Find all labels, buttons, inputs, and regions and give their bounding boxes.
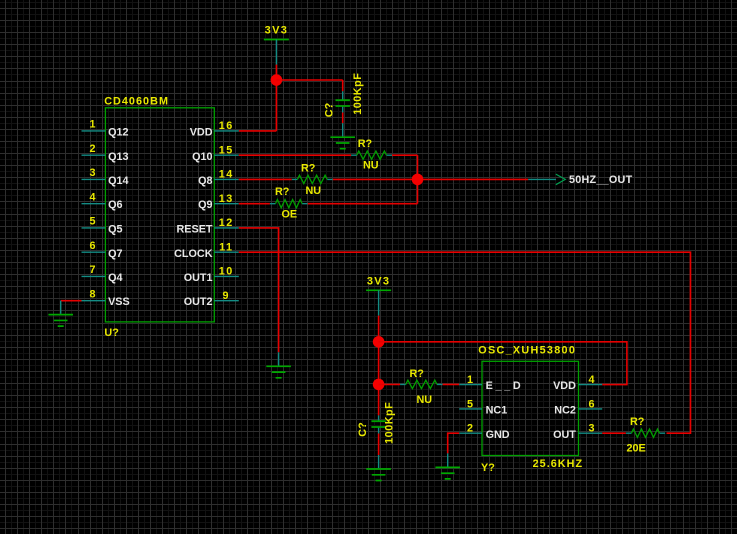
- junction dot2 bottom rail: [373, 379, 385, 391]
- resistor R5 (R? NU): [400, 380, 443, 388]
- pin 9 of U1 (OUT2): [184, 290, 239, 308]
- wire capacitor C2 to ground: [378, 434, 380, 456]
- wire resistor R5 to OSC pin 1: [443, 383, 460, 385]
- svg-text:C?: C?: [357, 422, 369, 436]
- svg-text:R?: R?: [301, 163, 315, 175]
- svg-text:OSC_XUH53800: OSC_XUH53800: [478, 345, 576, 357]
- ground at OSC GND: [435, 453, 460, 479]
- wire VDD row from vertical to pin 16: [239, 130, 277, 132]
- ground at RESET: [266, 352, 291, 378]
- wire resistor R6 to OSC OUT pin 3: [602, 432, 626, 434]
- svg-text:OUT1: OUT1: [184, 272, 213, 284]
- svg-text:11: 11: [219, 241, 233, 253]
- wire from junction to capacitor C1 branch: [276, 80, 342, 91]
- svg-text:16: 16: [219, 120, 234, 132]
- junction dot at 3V3 rail (276,80): [271, 74, 283, 86]
- resistor R3 (R? OE): [270, 200, 308, 208]
- svg-text:4: 4: [89, 192, 95, 204]
- svg-text:R?: R?: [410, 368, 424, 380]
- svg-text:R?: R?: [275, 186, 289, 198]
- svg-text:Y?: Y?: [481, 462, 495, 474]
- junction dot at 50HZ_OUT node: [412, 174, 424, 186]
- svg-text:VDD: VDD: [553, 380, 576, 392]
- power symbol 3V3 (top): [264, 25, 289, 65]
- svg-text:Q10: Q10: [192, 151, 212, 163]
- svg-text:CD4060BM: CD4060BM: [104, 96, 169, 108]
- resistor R6 (R? 20E): [626, 429, 665, 437]
- svg-text:NC2: NC2: [554, 405, 576, 417]
- pin 5 of U1 (Q5): [82, 216, 123, 236]
- pin 1 of U1 (Q12): [82, 119, 129, 139]
- svg-text:NU: NU: [417, 394, 433, 406]
- svg-text:RESET: RESET: [177, 224, 213, 236]
- svg-text:50HZ__OUT: 50HZ__OUT: [569, 174, 633, 186]
- svg-text:2: 2: [467, 423, 473, 435]
- svg-text:R?: R?: [630, 416, 644, 428]
- svg-text:2: 2: [89, 143, 95, 155]
- svg-text:C?: C?: [324, 103, 336, 117]
- wire 3V3 bottom vertical through junctions to capacitor C2: [378, 316, 380, 416]
- net port 50HZ__OUT line: [528, 178, 556, 180]
- pin 1 of Y1 (<tspan letter-spacing="2.7">E__D</tspan>): [459, 374, 523, 392]
- svg-text:100KpF: 100KpF: [384, 402, 396, 444]
- wire vertical node x=417.5: [417, 155, 419, 204]
- capacitor C1 (C? 100KpF): [336, 91, 350, 112]
- wire CLOCK pin 11 to right vertical: [239, 252, 691, 433]
- svg-text:14: 14: [219, 169, 234, 181]
- pin 13 of U1 (Q9): [198, 193, 239, 211]
- pin 11 of U1 (CLOCK): [174, 241, 239, 259]
- svg-text:15: 15: [219, 144, 234, 156]
- wire VSS pin 8 to ground: [61, 300, 82, 302]
- svg-text:VDD: VDD: [190, 127, 213, 139]
- wire resistor R2 to junction: [333, 178, 528, 180]
- svg-text:OUT: OUT: [553, 429, 576, 441]
- svg-text:1: 1: [467, 374, 473, 386]
- svg-text:NU: NU: [363, 160, 379, 172]
- wire 3V3 top vertical to junction and down to VDD row: [275, 65, 277, 131]
- svg-text:100KpF: 100KpF: [352, 73, 364, 115]
- svg-text:5: 5: [467, 398, 473, 410]
- pin 10 of U1 (OUT1): [184, 266, 239, 284]
- svg-text:CLOCK: CLOCK: [174, 248, 213, 260]
- pin 7 of U1 (Q4): [82, 264, 123, 284]
- svg-text:25.6KHZ: 25.6KHZ: [533, 458, 584, 470]
- power symbol 3V3 (bottom): [366, 275, 391, 315]
- wire capacitor C1 to ground: [342, 113, 344, 124]
- svg-text:OE: OE: [282, 209, 298, 221]
- svg-text:Q13: Q13: [108, 151, 128, 163]
- wire dot1 to OSC VDD pin 4: [379, 342, 627, 385]
- svg-text:9: 9: [223, 290, 231, 302]
- svg-text:Q8: Q8: [198, 175, 212, 187]
- svg-text:7: 7: [89, 264, 95, 276]
- net port 50HZ__OUT arrow: [556, 174, 566, 185]
- svg-text:Q6: Q6: [108, 199, 122, 211]
- pin 14 of U1 (Q8): [198, 169, 239, 187]
- svg-text:U?: U?: [104, 327, 118, 339]
- wire dot2 to resistor R5: [379, 383, 401, 385]
- svg-text:20E: 20E: [627, 443, 646, 455]
- svg-text:Q14: Q14: [108, 175, 128, 187]
- svg-text:3: 3: [89, 167, 95, 179]
- svg-text:13: 13: [219, 193, 234, 205]
- capacitor C2 (C? 100KpF): [371, 415, 385, 433]
- svg-text:Q12: Q12: [108, 127, 128, 139]
- svg-text:OUT2: OUT2: [184, 296, 213, 308]
- svg-text:R?: R?: [358, 138, 372, 150]
- IC U? CD4060BM body: [105, 108, 214, 322]
- svg-text:Q9: Q9: [198, 199, 212, 211]
- pin 6 of Y1 (NC2): [554, 398, 602, 416]
- svg-text:3: 3: [588, 423, 594, 435]
- pin 3 of Y1 (OUT): [553, 423, 602, 441]
- svg-text:3V3: 3V3: [265, 25, 288, 37]
- resistor R2 (R? NU): [292, 175, 333, 183]
- svg-text:GND: GND: [486, 429, 510, 441]
- wire OSC GND pin 2 to ground: [448, 433, 460, 453]
- pin 6 of U1 (Q7): [82, 240, 123, 260]
- wire resistor R1 to vertical node: [392, 154, 417, 156]
- svg-text:3V3: 3V3: [367, 275, 390, 287]
- svg-text:8: 8: [89, 288, 95, 300]
- oscillator Y? OSC_XUH53800 body: [482, 361, 579, 455]
- svg-text:6: 6: [89, 240, 95, 252]
- svg-text:4: 4: [588, 374, 594, 386]
- pin 8 of U1 (VSS): [82, 288, 130, 308]
- ground below C2: [366, 455, 391, 481]
- wire RESET pin 12 down to ground: [239, 228, 279, 352]
- svg-text:VSS: VSS: [108, 296, 130, 308]
- svg-text:Q5: Q5: [108, 224, 122, 236]
- svg-text:12: 12: [219, 217, 234, 229]
- pin 2 of U1 (Q13): [82, 143, 129, 163]
- svg-text:E__D: E__D: [486, 380, 524, 392]
- pin 2 of Y1 (GND): [459, 423, 510, 441]
- svg-text:5: 5: [89, 216, 95, 228]
- junction dot1 bottom rail: [373, 336, 385, 348]
- wire pin 14 to resistor R2: [239, 178, 292, 180]
- pin 16 of U1 (VDD): [190, 120, 239, 138]
- pin 4 of U1 (Q6): [82, 192, 123, 212]
- ground below C1: [330, 123, 355, 149]
- svg-text:Q4: Q4: [108, 272, 122, 284]
- resistor R1 (R? NU): [351, 151, 392, 159]
- pin 5 of Y1 (NC1): [459, 398, 507, 416]
- wire pin 13 to resistor R3: [239, 203, 270, 205]
- pin 4 of Y1 (VDD): [553, 374, 602, 392]
- pin 3 of U1 (Q14): [82, 167, 129, 187]
- svg-text:1: 1: [89, 119, 95, 131]
- pin 12 of U1 (RESET): [177, 217, 239, 235]
- ground at VSS: [48, 301, 73, 327]
- svg-text:NU: NU: [306, 185, 322, 197]
- svg-text:6: 6: [588, 398, 594, 410]
- wire resistor R3 to vertical node: [308, 203, 418, 205]
- svg-text:NC1: NC1: [486, 405, 508, 417]
- wire pin 15 to resistor R1: [239, 154, 351, 156]
- svg-text:10: 10: [219, 266, 234, 278]
- pin 15 of U1 (Q10): [192, 144, 239, 163]
- svg-text:Q7: Q7: [108, 248, 122, 260]
